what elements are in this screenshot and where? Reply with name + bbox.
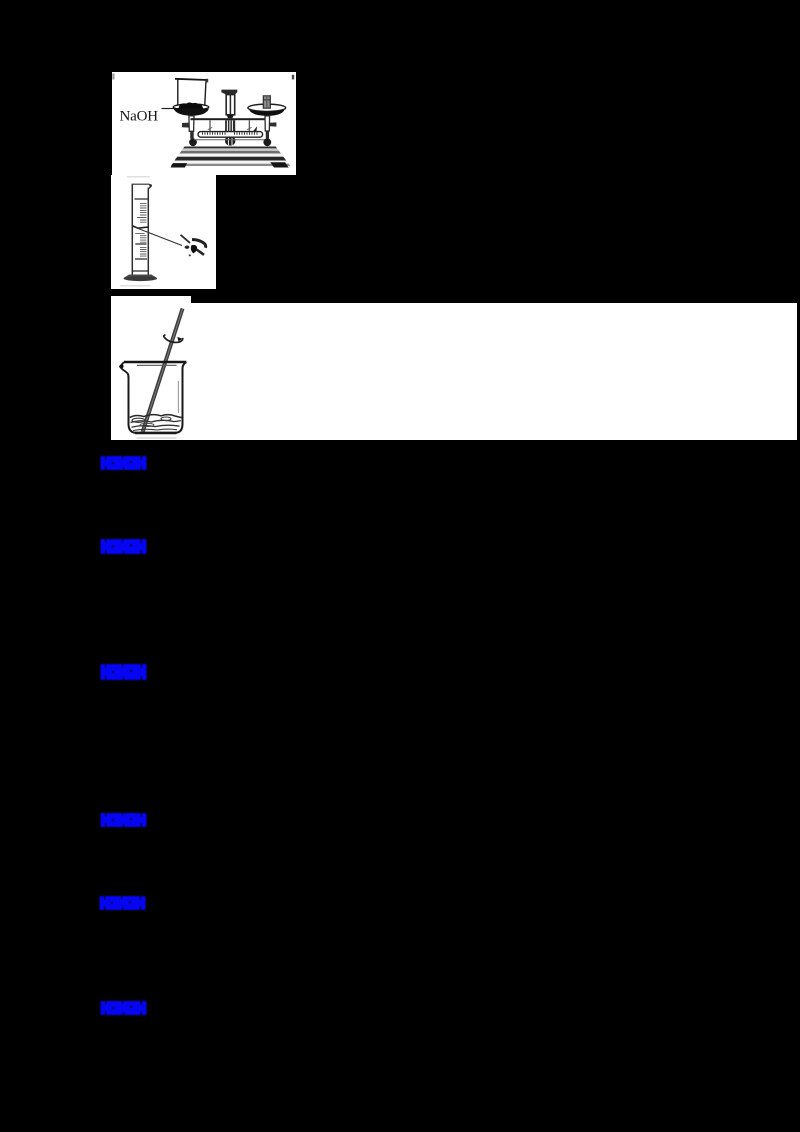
right pan stem: [265, 116, 270, 131]
left foot: [171, 163, 188, 167]
corner artifact marks: [112, 74, 114, 80]
right pan bowl: [249, 110, 285, 116]
beam: [191, 118, 270, 120]
minor ticks group 2: [135, 233, 146, 242]
faint smudge above cylinder: [127, 176, 150, 177]
graduation major line 1: [135, 198, 148, 200]
pointer line from NaOH to beaker: [162, 108, 178, 110]
hatched block under beam: [225, 120, 235, 131]
central pillar T-top: [221, 90, 237, 95]
panel 3: wide white band: [111, 303, 797, 440]
gray shadow line under beaker: [137, 437, 177, 438]
right foot: [270, 162, 288, 167]
left pan bowl: [173, 108, 209, 116]
left side knob: [182, 123, 189, 128]
cylinder base: [124, 275, 158, 279]
eye upper-left lash: [181, 235, 191, 243]
eye speck: [189, 254, 191, 256]
sliding ruler with ticks: [198, 132, 263, 138]
liquid meniscus line: [132, 226, 148, 229]
blue label 2: [100, 538, 147, 555]
beaker left wall: [128, 374, 136, 433]
rotation arrow around rod: [164, 335, 183, 343]
eye pupil: [191, 245, 197, 253]
beaker right wall: [176, 362, 187, 433]
beaker on left pan: [178, 79, 206, 105]
inner right scale line: [177, 381, 179, 413]
pillar stem: [226, 95, 235, 115]
beaker rim: [124, 361, 186, 364]
pivot neck: [227, 115, 234, 118]
graduation major line 3: [135, 258, 147, 260]
pointer needle: [229, 131, 232, 139]
blue label 4: [100, 812, 147, 828]
beaker spout: [120, 362, 128, 374]
right bearing ball: [263, 138, 271, 146]
panel 3: beaker image, narrow top strip: [111, 296, 191, 304]
rail line between bearings: [194, 139, 266, 141]
ruler support posts: [210, 120, 249, 132]
cylinder walls: [132, 185, 148, 275]
pointer dial blob: [225, 137, 235, 145]
graduation major line 2: [135, 243, 146, 245]
beaker bottom: [135, 432, 177, 435]
right side knob: [270, 122, 277, 126]
NaOH solid blob in beaker: [178, 103, 204, 109]
liquid with wavy surface: [130, 415, 182, 418]
rider arrow: [253, 126, 258, 131]
blue label 1: [100, 455, 147, 471]
blue label 3: [100, 663, 147, 681]
eye upper arc lash: [192, 240, 206, 248]
eye: small blob at end of sight line: [185, 246, 190, 249]
left pan rim: [173, 104, 209, 110]
eye lower lash: [197, 250, 205, 255]
svg-text:NaOH: NaOH: [120, 109, 159, 125]
stirring rod: [141, 308, 185, 433]
minor ticks group 1: [137, 204, 147, 223]
faint shadow line under base: [120, 285, 151, 286]
blue label 5: [99, 895, 146, 911]
right pan rim: [248, 104, 286, 111]
panel 1: balance scale image: [112, 72, 296, 175]
left pan stem: [189, 116, 194, 132]
minor ticks group 3: [140, 247, 147, 256]
panel 2: graduated cylinder image: [111, 175, 216, 289]
weights on right pan: [263, 96, 270, 108]
beaker drawing: [111, 296, 201, 444]
inner rim line: [137, 364, 177, 366]
cylinder bottom inner line: [132, 270, 148, 272]
left bearing ball: [189, 138, 197, 146]
sight line to eye: [133, 227, 182, 246]
blue label 6: [100, 1000, 147, 1016]
